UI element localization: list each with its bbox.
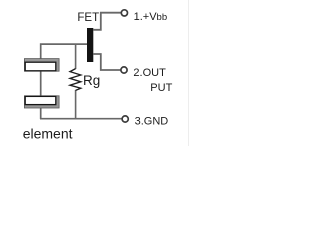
transistor FET bar <box>87 28 93 62</box>
terminal 3 circle <box>122 116 128 122</box>
wire drain lead to terminal 1 <box>93 13 121 30</box>
wire gate node: left vertical + horizontal to FET gate <box>41 44 88 59</box>
element lower plate (diaphragm slab) <box>24 96 59 108</box>
svg-text:1.+Vbb: 1.+Vbb <box>134 11 168 23</box>
element upper plate (back electrode slab) <box>24 59 59 72</box>
svg-text:Rg: Rg <box>83 73 100 88</box>
wire source lead to terminal 2 <box>93 54 121 70</box>
svg-text:element: element <box>23 126 73 142</box>
terminal 1 circle <box>121 10 127 16</box>
svg-text:FET: FET <box>77 12 99 24</box>
resistor Rg zigzag <box>70 69 81 91</box>
svg-text:2.OUT: 2.OUT <box>133 67 166 79</box>
wire resistor bottom lead to ground rail <box>75 90 77 119</box>
wire resistor top lead from gate wire <box>75 44 77 69</box>
svg-text:3.GND: 3.GND <box>135 115 169 127</box>
label 2.OUTPUT <box>133 67 172 94</box>
wire ground rail to terminal 3 <box>40 118 122 120</box>
svg-text:PUT: PUT <box>150 82 172 94</box>
wire element center vertical (through plates to ground rail) <box>40 58 42 119</box>
terminal 2 circle <box>121 67 127 73</box>
border artifact line at right edge <box>188 0 190 146</box>
